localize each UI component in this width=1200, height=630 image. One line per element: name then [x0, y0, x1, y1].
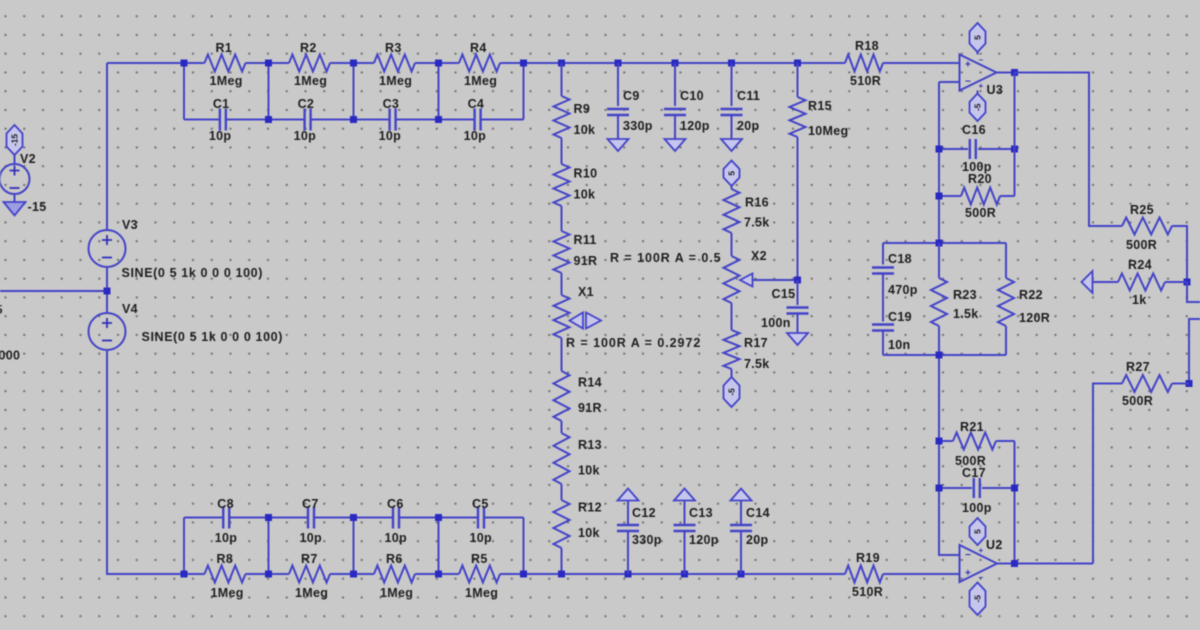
capacitor C19 [872, 310, 912, 352]
wire R27 right lead [1172, 383, 1189, 385]
resistor R16 [724, 189, 770, 233]
ground below C9 [608, 139, 629, 151]
wire C10 top [674, 63, 676, 106]
svg-text:91R: 91R [574, 254, 598, 268]
resistor R17 [724, 330, 770, 371]
svg-text:R21: R21 [960, 420, 984, 434]
svg-text:100n: 100n [761, 316, 791, 330]
junction node R24/R25 [1184, 279, 1191, 286]
wire U3 V+ pin [977, 50, 979, 55]
junction node top rail [181, 60, 188, 67]
resistor R27 [1122, 360, 1172, 408]
svg-text:C11: C11 [737, 89, 760, 103]
svg-text:10p: 10p [215, 531, 238, 545]
resistor R7 [289, 552, 330, 600]
junction node top rail [520, 60, 527, 67]
svg-text:R4: R4 [470, 41, 487, 55]
svg-text:500R: 500R [965, 206, 996, 220]
svg-text:+: + [979, 546, 984, 555]
svg-text:C19: C19 [888, 310, 912, 324]
wire U3 V- pin [977, 91, 979, 98]
resistor R12 [554, 500, 602, 548]
wire feedback vertical lower [939, 355, 960, 555]
capacitor C12 [617, 506, 662, 547]
svg-text:10p: 10p [464, 129, 487, 143]
capacitor C6 [385, 497, 408, 545]
svg-text:1Meg: 1Meg [380, 586, 413, 600]
clipped text left edge [0, 303, 20, 363]
wire cap rail segment [481, 119, 523, 121]
svg-text:R10: R10 [574, 167, 598, 181]
svg-text:R12: R12 [578, 501, 602, 515]
junction node C16 left [936, 146, 943, 153]
svg-text:R8: R8 [217, 552, 234, 566]
wire top rail from V3 to R1 ladder [107, 62, 205, 64]
voltage source V3 [89, 218, 138, 267]
potentiometer X1 [554, 285, 602, 338]
svg-text:1Meg: 1Meg [295, 586, 328, 600]
capacitor C15 [761, 287, 809, 330]
wire bottom cap rail segment [184, 517, 223, 519]
svg-text:120R: 120R [1019, 311, 1050, 325]
svg-text:−: − [965, 77, 971, 88]
resistor R24 [1118, 258, 1165, 307]
svg-text:R3: R3 [385, 41, 402, 55]
net flag -5 below U3 [970, 94, 986, 122]
svg-text:10k: 10k [578, 526, 600, 540]
svg-text:R18: R18 [855, 39, 879, 53]
junction node top rail [435, 60, 442, 67]
value label V3 SINE [122, 266, 264, 280]
resistor R4 [459, 41, 500, 88]
ground above C14 (inverted) [731, 489, 752, 501]
wire chain bottom [561, 548, 563, 574]
wire U2 output [997, 563, 1093, 565]
svg-text:20p: 20p [737, 119, 760, 133]
wire R27 to U2 output [1093, 384, 1122, 564]
capacitor C8 [215, 497, 238, 545]
wire bottom cap rail segment [230, 517, 269, 519]
wire [561, 206, 563, 231]
value label: R = 100R A = 0.5 [610, 251, 722, 265]
svg-text:10p: 10p [385, 531, 408, 545]
wire R15 to node [797, 137, 799, 280]
svg-text:10p: 10p [294, 129, 317, 143]
op-amp U3 [960, 55, 1004, 98]
svg-text:R5: R5 [471, 552, 488, 566]
wire bottom cap rail segment [315, 517, 354, 519]
svg-text:R25: R25 [1130, 203, 1154, 217]
wire feedback vertical upper [938, 82, 940, 243]
wire C13 bottom [684, 531, 686, 574]
wire bottom ladder column [268, 518, 270, 575]
wire bottom rail start [184, 573, 205, 575]
junction node top rail [728, 60, 735, 67]
svg-text:R24: R24 [1128, 258, 1152, 272]
wire [561, 421, 563, 433]
resistor R5 [459, 552, 500, 600]
wire U3 -in to feedback [939, 81, 960, 83]
junction node bottom rail [625, 571, 632, 578]
wire U2 V+ pin [977, 540, 979, 545]
resistor R23 [931, 243, 979, 355]
svg-text:C12: C12 [632, 506, 656, 520]
net flag -5 below R17 [724, 377, 740, 407]
svg-text:7.5k: 7.5k [744, 216, 770, 230]
junction node bottom rail [738, 571, 745, 578]
junction node bottom rail [181, 571, 188, 578]
svg-text:-15: -15 [28, 200, 47, 214]
svg-text:20p: 20p [746, 533, 769, 547]
ground above C13 (inverted) [674, 489, 695, 501]
svg-text:10k: 10k [574, 188, 596, 202]
net flag -5 below U2 [970, 583, 986, 616]
capacitor C7 [300, 497, 323, 545]
junction node V3/V4 [104, 288, 111, 295]
svg-text:C4: C4 [468, 97, 485, 111]
junction node U2 out [1011, 560, 1018, 567]
svg-text:330p: 330p [623, 119, 653, 133]
svg-text:1.5k: 1.5k [953, 307, 979, 321]
junction node C16 right [1011, 146, 1018, 153]
junction node bottom cap rail [265, 514, 272, 521]
junction node cap rail [350, 116, 357, 123]
wire [561, 273, 563, 295]
svg-text:91R: 91R [578, 401, 602, 415]
svg-text:R7: R7 [301, 552, 318, 566]
svg-text:7.5k: 7.5k [744, 357, 770, 371]
svg-text:R = 100R A = 0.2972: R = 100R A = 0.2972 [566, 336, 701, 350]
wire [561, 484, 563, 500]
wire right bus re-entry [1189, 319, 1200, 384]
wire [731, 369, 733, 378]
wire cap rail segment [354, 119, 390, 121]
svg-text:120p: 120p [689, 533, 719, 547]
junction node R21 left [936, 438, 943, 445]
svg-text:10p: 10p [209, 129, 232, 143]
wire U3 out down [1014, 73, 1016, 197]
capacitor C18 [872, 252, 918, 297]
wire V3 to node [106, 267, 108, 313]
svg-text:R27: R27 [1126, 360, 1150, 374]
resistor R8 [205, 552, 246, 600]
net flag 5 above R16 [724, 161, 740, 190]
svg-text:5: 5 [973, 529, 983, 534]
resistor R6 [374, 552, 415, 600]
potentiometer X2 [724, 249, 767, 303]
wire U3 out to R25 [1015, 73, 1123, 227]
svg-text:C15: C15 [772, 287, 796, 301]
svg-text:510R: 510R [852, 585, 883, 599]
net flag 5 above U2 [970, 518, 986, 545]
port arrow at R24 [1082, 271, 1093, 293]
svg-text:SINE(0 5 1k 0 0 0 100): SINE(0 5 1k 0 0 0 100) [122, 266, 264, 280]
wire C15 top [797, 280, 799, 305]
wire bottom cap rail segment [354, 517, 393, 519]
svg-text:X1: X1 [578, 285, 594, 299]
junction node top rail [350, 60, 357, 67]
svg-text:10n: 10n [888, 338, 910, 352]
svg-text:500R: 500R [1122, 394, 1153, 408]
junction node bottom cap rail [435, 514, 442, 521]
wire [561, 138, 563, 164]
wire V3 to top rail [106, 63, 108, 230]
wire C15 bottom [797, 314, 799, 334]
wire top rail segment [415, 62, 459, 64]
wire C11 bottom [731, 115, 733, 139]
svg-text:V3: V3 [122, 218, 138, 232]
wire U3 output [997, 72, 1015, 74]
svg-text:C16: C16 [962, 123, 986, 137]
ground below C10 [665, 139, 686, 151]
resistor R13 [554, 433, 602, 484]
wire C9 top [617, 63, 619, 106]
svg-text:1Meg: 1Meg [210, 74, 243, 88]
wire ladder column [268, 63, 270, 120]
svg-text:500R: 500R [1126, 238, 1157, 252]
resistor R15 [790, 97, 849, 138]
wire C14 top [740, 501, 742, 526]
ground above C12 (inverted) [618, 489, 639, 501]
wire block left mid [882, 274, 884, 322]
junction node bottom rail [520, 571, 527, 578]
svg-text:C18: C18 [888, 252, 912, 266]
junction node top rail [794, 60, 801, 67]
wire bottom rail mid [524, 573, 846, 575]
ground below V2 [4, 202, 26, 216]
wire block left top [882, 243, 884, 265]
wire bottom rail segment [246, 573, 290, 575]
resistor R14 [554, 371, 602, 421]
svg-text:100p: 100p [962, 501, 992, 515]
svg-text:R13: R13 [578, 438, 602, 452]
svg-text:C6: C6 [387, 497, 404, 511]
value label V2: -15 [28, 200, 47, 214]
net flag -15 above V2 [7, 125, 23, 164]
capacitor C14 [730, 506, 770, 547]
capacitor C16 [939, 123, 1015, 174]
voltage source V2 [0, 152, 36, 194]
svg-text:1k: 1k [1132, 293, 1147, 307]
svg-text:5: 5 [0, 303, 3, 317]
svg-text:C5: C5 [472, 497, 489, 511]
svg-text:C17: C17 [962, 466, 986, 480]
svg-text:510R: 510R [850, 74, 881, 88]
junction node C17 left [936, 485, 943, 492]
svg-text:R11: R11 [574, 233, 597, 247]
wire block top rail [883, 242, 1006, 244]
junction node bottom rail [435, 571, 442, 578]
wire bottom rail segment [330, 573, 374, 575]
junction node cap rail [265, 116, 272, 123]
wire R15 top [797, 63, 799, 97]
wire C13 top [684, 501, 686, 526]
junction node top rail [265, 60, 272, 67]
junction node block top [936, 240, 943, 247]
resistor R3 [374, 41, 415, 88]
wire chain top [561, 63, 563, 96]
capacitor C11 [721, 89, 761, 133]
wire bottom ladder column [183, 518, 185, 575]
wire ladder column [183, 63, 185, 120]
wire ladder column [353, 63, 355, 120]
wire block left bottom [882, 331, 884, 356]
wire right bus exit [1187, 282, 1200, 302]
wire V4 down to bottom rail [107, 350, 184, 574]
svg-text:120p: 120p [680, 119, 710, 133]
svg-text:5: 5 [727, 171, 737, 176]
svg-text:R17: R17 [744, 336, 768, 350]
resistor R18 [845, 39, 883, 88]
svg-text:R2: R2 [300, 41, 317, 55]
wire [731, 303, 733, 330]
svg-text:10p: 10p [470, 531, 493, 545]
wire top rail segment [330, 62, 374, 64]
wire bottom ladder column [438, 518, 440, 575]
svg-text:R23: R23 [953, 288, 977, 302]
svg-text:V4: V4 [122, 302, 138, 316]
junction node C17 right [1011, 485, 1018, 492]
capacitor C10 [664, 89, 710, 133]
junction node R20 left [936, 193, 943, 200]
svg-text:−: − [965, 550, 971, 561]
wire cap rail segment [439, 119, 475, 121]
wire R19 to U2 +in [883, 573, 960, 575]
junction node block bottom [936, 352, 943, 359]
svg-text:−: − [979, 573, 984, 582]
junction node top rail [672, 60, 679, 67]
wire R24 right lead [1165, 281, 1187, 283]
voltage source V4 [89, 302, 138, 350]
capacitor C3 [379, 97, 402, 143]
svg-text:-5: -5 [727, 388, 737, 396]
wire R25 to right bus [1172, 226, 1187, 282]
wire cap rail segment [226, 119, 268, 121]
wire bottom cap rail segment [400, 517, 439, 519]
svg-text:10p: 10p [379, 129, 402, 143]
resistor R22 [998, 243, 1050, 355]
svg-text:000: 000 [0, 349, 20, 363]
wire bottom cap rail segment [439, 517, 478, 519]
wire bottom rail segment [500, 573, 544, 575]
svg-text:1Meg: 1Meg [465, 586, 498, 600]
resistor R21 [939, 420, 1015, 468]
wire top rail segment [246, 62, 290, 64]
svg-text:C13: C13 [689, 506, 713, 520]
svg-text:U3: U3 [987, 83, 1004, 97]
svg-text:1Meg: 1Meg [379, 74, 412, 88]
wire bottom ladder column [353, 518, 355, 575]
op-amp U2 [960, 538, 1003, 582]
wire cap rail segment [269, 119, 305, 121]
capacitor C13 [674, 506, 719, 547]
junction node top rail [558, 60, 565, 67]
wire ladder column [523, 63, 525, 120]
svg-text:R6: R6 [386, 552, 403, 566]
svg-text:R14: R14 [578, 376, 602, 390]
wire top rail from R4 to R18 [524, 62, 846, 64]
svg-text:R15: R15 [808, 99, 832, 113]
svg-text:330p: 330p [632, 533, 662, 547]
capacitor C17 [939, 466, 1015, 515]
resistor R25 [1122, 203, 1172, 252]
wire C9 bottom [617, 115, 619, 139]
net flag 5 above U3 [970, 23, 986, 52]
svg-text:R20: R20 [968, 172, 992, 186]
resistor R10 [554, 164, 598, 206]
wire X2 wiper to node [753, 279, 798, 281]
svg-text:C14: C14 [746, 506, 770, 520]
wire bottom cap rail segment [485, 517, 524, 519]
wire C11 top [731, 63, 733, 106]
svg-text:R16: R16 [745, 196, 769, 210]
svg-text:5: 5 [973, 35, 983, 40]
svg-text:C1: C1 [213, 97, 230, 111]
capacitor C1 [209, 97, 232, 143]
svg-text:C8: C8 [217, 497, 234, 511]
resistor R19 [845, 551, 883, 599]
resistor R1 [205, 41, 246, 88]
capacitor C5 [470, 497, 493, 545]
junction node bottom rail [681, 571, 688, 578]
svg-text:+: + [965, 568, 971, 579]
svg-text:+: + [979, 82, 984, 91]
wire C14 bottom [740, 531, 742, 574]
value label: R = 100R A = 0.2972 [566, 336, 701, 350]
junction node bottom cap rail [350, 514, 357, 521]
wire bottom rail segment [415, 573, 459, 575]
svg-text:R1: R1 [216, 41, 233, 55]
capacitor C9 [607, 89, 653, 133]
svg-text:−: − [979, 56, 984, 65]
svg-text:X2: X2 [751, 249, 767, 263]
svg-text:V2: V2 [20, 152, 36, 166]
svg-text:10p: 10p [300, 531, 323, 545]
wire R24 lead [1093, 281, 1119, 283]
wire C12 top [627, 501, 629, 526]
svg-text:R9: R9 [574, 102, 591, 116]
svg-text:10k: 10k [578, 464, 600, 478]
wire bottom cap rail segment [269, 517, 308, 519]
wire [561, 338, 563, 371]
wire cap rail segment [311, 119, 353, 121]
ground below C11 [721, 139, 742, 151]
svg-text:C9: C9 [623, 89, 640, 103]
svg-text:C3: C3 [383, 97, 400, 111]
svg-text:10k: 10k [574, 123, 596, 137]
svg-text:+: + [965, 60, 971, 71]
wire R18 to U3 +in [883, 62, 960, 64]
svg-text:-15: -15 [10, 134, 20, 147]
svg-text:R22: R22 [1019, 288, 1043, 302]
svg-text:SINE(0 5 1k 0 0 0 100): SINE(0 5 1k 0 0 0 100) [142, 330, 284, 344]
wire U2 V- pin [977, 582, 979, 589]
svg-text:1Meg: 1Meg [211, 586, 244, 600]
wire block bottom rail [883, 354, 1006, 356]
wire top rail segment [500, 62, 544, 64]
junction node R27 right [1186, 380, 1193, 387]
junction node bottom rail [265, 571, 272, 578]
wire bottom ladder column [523, 518, 525, 575]
wire [731, 233, 733, 256]
wire cap rail segment [396, 119, 438, 121]
svg-text:C2: C2 [298, 97, 315, 111]
resistor R20 [939, 172, 1015, 220]
wire C12 bottom [627, 531, 629, 574]
value label V4 SINE [142, 330, 284, 344]
junction node wiper/R15/C15 [794, 277, 801, 284]
resistor R2 [289, 41, 330, 88]
